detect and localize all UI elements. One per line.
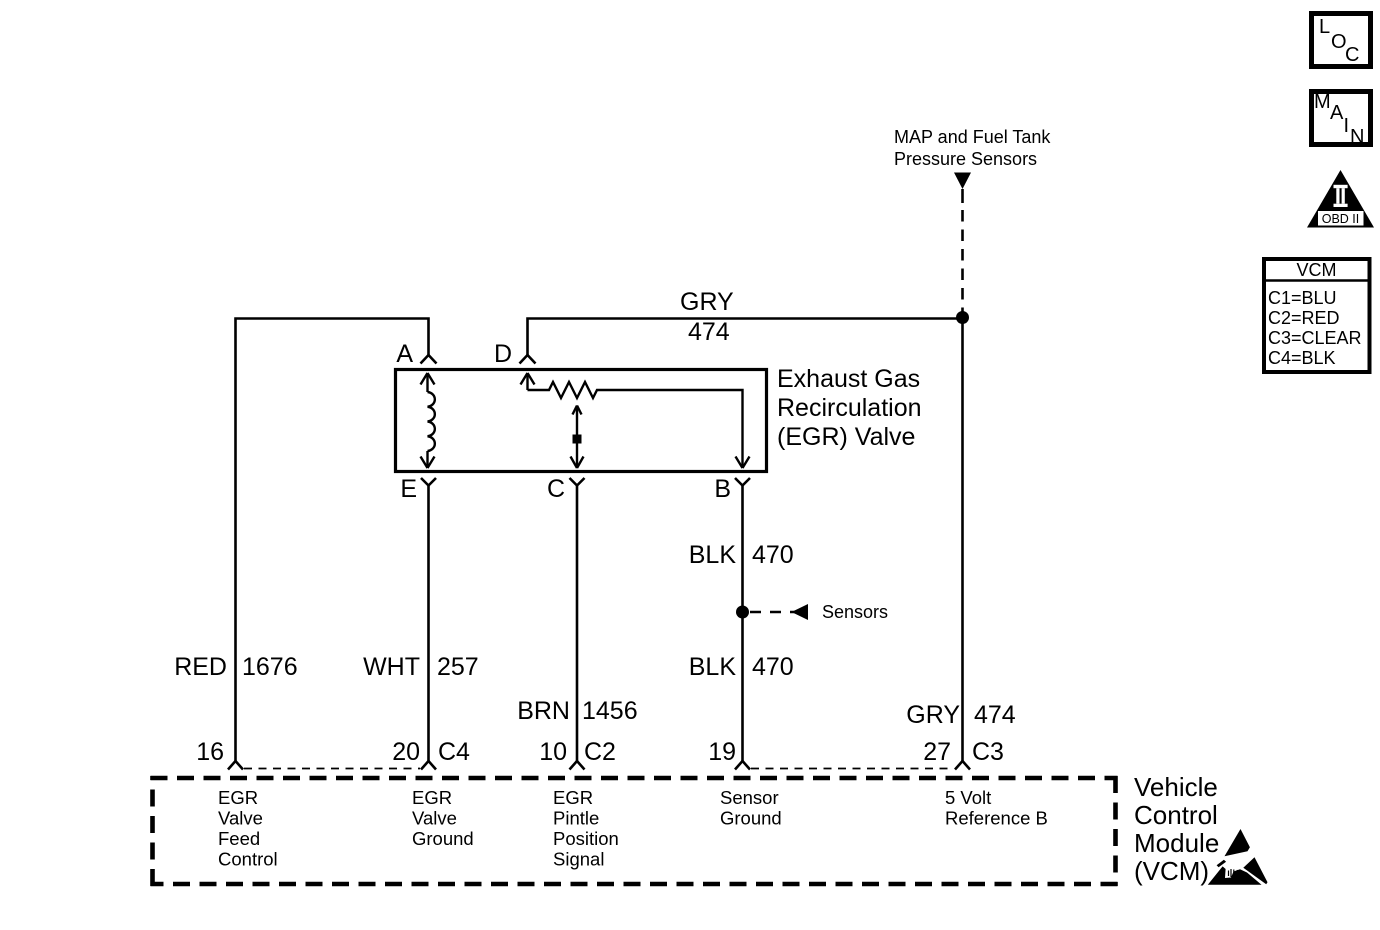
svg-text:Exhaust Gas: Exhaust Gas bbox=[777, 365, 920, 393]
svg-text:C: C bbox=[1345, 44, 1359, 66]
wire: RED 1676 from VCM pin 16 up and over to EGR pin A bbox=[236, 319, 429, 763]
connector pin 10 (male terminal) bbox=[570, 761, 585, 770]
wire: thin dashed connector bar pin16-pin20 bbox=[244, 768, 420, 770]
svg-text:257: 257 bbox=[437, 653, 479, 681]
svg-text:Feed: Feed bbox=[218, 828, 260, 849]
svg-text:(EGR) Valve: (EGR) Valve bbox=[777, 423, 915, 451]
OBD II triangle symbol bbox=[1307, 170, 1374, 228]
potentiometer wiper arm (pin C) bbox=[571, 406, 584, 469]
ESD hand finger strokes bbox=[1229, 869, 1238, 877]
connector pin E (male terminal) bbox=[421, 478, 436, 486]
svg-text:Sensors: Sensors bbox=[822, 602, 888, 622]
svg-text:BLK: BLK bbox=[689, 541, 737, 569]
MAIN page symbol box bbox=[1312, 92, 1371, 145]
arrow: off-page arrowhead to sensors bbox=[954, 173, 971, 190]
svg-text:20: 20 bbox=[392, 738, 420, 766]
svg-text:BLK: BLK bbox=[689, 653, 737, 681]
svg-text:C3=CLEAR: C3=CLEAR bbox=[1268, 328, 1362, 348]
svg-text:GRY: GRY bbox=[680, 288, 734, 316]
wire: GRY 474 from junction down to VCM pin 27 bbox=[961, 318, 964, 763]
svg-text:Recirculation: Recirculation bbox=[777, 394, 922, 422]
LOC page symbol box bbox=[1312, 14, 1371, 67]
potentiometer R1 inside EGR valve (pin D to pin B) bbox=[521, 373, 750, 468]
OBD II roman numeral II (white) bbox=[1334, 185, 1348, 207]
pintle contact square on wiper bbox=[573, 435, 582, 444]
wire: dashed off-page to MAP and Fuel Tank Pressure Sensors bbox=[961, 189, 964, 316]
wire: BRN 1456 from EGR pin C down to VCM pin 10 bbox=[576, 486, 579, 763]
svg-text:C3: C3 bbox=[972, 738, 1004, 766]
wire: WHT 257 from EGR pin E down to VCM pin 20 bbox=[427, 486, 430, 763]
svg-text:N: N bbox=[1350, 126, 1364, 148]
svg-text:EGR: EGR bbox=[412, 787, 452, 808]
svg-text:Control: Control bbox=[218, 849, 278, 870]
svg-text:C2=RED: C2=RED bbox=[1268, 308, 1340, 328]
svg-text:BRN: BRN bbox=[517, 697, 570, 725]
svg-text:Signal: Signal bbox=[553, 849, 604, 870]
VCM connector color table bbox=[1264, 259, 1370, 372]
svg-text:27: 27 bbox=[923, 738, 951, 766]
ESD symbol lower triangle with hand (after VCM) bbox=[1208, 857, 1268, 885]
svg-text:C1=BLU: C1=BLU bbox=[1268, 288, 1337, 308]
wire: thin dashed connector bar pin19-pin27 bbox=[751, 768, 954, 770]
svg-text:A: A bbox=[396, 340, 413, 368]
svg-text:Pintle: Pintle bbox=[553, 808, 599, 829]
svg-text:EGR: EGR bbox=[553, 787, 593, 808]
ESD symbol upper cone (after Module) bbox=[1225, 829, 1250, 856]
svg-text:L: L bbox=[1319, 16, 1330, 38]
svg-text:E: E bbox=[400, 475, 417, 503]
svg-text:Sensor: Sensor bbox=[720, 787, 779, 808]
svg-text:Pressure Sensors: Pressure Sensors bbox=[894, 149, 1037, 169]
svg-text:10: 10 bbox=[539, 738, 567, 766]
svg-text:WHT: WHT bbox=[363, 653, 420, 681]
svg-text:Ground: Ground bbox=[412, 828, 474, 849]
connector pin 19 (male terminal) bbox=[735, 761, 750, 770]
OBD II label plate bbox=[1318, 211, 1364, 226]
svg-text:GRY: GRY bbox=[906, 701, 960, 729]
svg-text:MAP and Fuel Tank: MAP and Fuel Tank bbox=[894, 127, 1051, 147]
node: splice junction to other sensors on BLK 470 bbox=[736, 606, 749, 619]
svg-text:Valve: Valve bbox=[218, 808, 263, 829]
svg-text:474: 474 bbox=[688, 318, 730, 346]
connector pin D (female terminal) bbox=[520, 355, 536, 364]
connector pin C (male terminal) bbox=[570, 478, 585, 486]
svg-text:16: 16 bbox=[196, 738, 224, 766]
svg-text:1676: 1676 bbox=[242, 653, 298, 681]
node: splice junction to MAP/Fuel Tank sensors bbox=[956, 311, 969, 324]
connector pin 16 (male terminal) bbox=[228, 761, 243, 770]
svg-text:A: A bbox=[1330, 102, 1344, 124]
svg-text:19: 19 bbox=[708, 738, 736, 766]
svg-text:I: I bbox=[1344, 115, 1350, 137]
EGR valve box U1 bbox=[396, 370, 767, 472]
svg-text:Module: Module bbox=[1134, 828, 1219, 858]
solenoid coil L1 inside EGR valve (pin A to pin E) bbox=[421, 373, 435, 468]
svg-text:EGR: EGR bbox=[218, 787, 258, 808]
svg-text:5 Volt: 5 Volt bbox=[945, 787, 991, 808]
connector pin B (male terminal) bbox=[735, 478, 750, 486]
svg-text:B: B bbox=[714, 475, 731, 503]
svg-text:C4: C4 bbox=[438, 738, 470, 766]
svg-text:Ground: Ground bbox=[720, 808, 782, 829]
svg-text:1456: 1456 bbox=[582, 697, 638, 725]
connector pin 27 (male terminal) bbox=[955, 761, 970, 770]
connector pin 20 (male terminal) bbox=[421, 761, 436, 770]
wire: GRY 474 from EGR pin D up and right to junction bbox=[528, 319, 963, 357]
arrow: off-page arrowhead from Sensors bbox=[792, 604, 809, 620]
svg-text:Control: Control bbox=[1134, 800, 1218, 830]
connector pin A (female terminal) bbox=[421, 355, 437, 364]
svg-text:C: C bbox=[547, 475, 565, 503]
svg-text:Reference B: Reference B bbox=[945, 808, 1048, 829]
svg-text:474: 474 bbox=[974, 701, 1016, 729]
svg-text:C2: C2 bbox=[584, 738, 616, 766]
VCM table header separator bbox=[1264, 279, 1370, 282]
svg-text:470: 470 bbox=[752, 653, 794, 681]
svg-text:M: M bbox=[1314, 91, 1331, 113]
svg-text:C4=BLK: C4=BLK bbox=[1268, 348, 1336, 368]
svg-text:Valve: Valve bbox=[412, 808, 457, 829]
svg-text:D: D bbox=[494, 340, 512, 368]
svg-text:(VCM): (VCM) bbox=[1134, 856, 1209, 886]
svg-text:Position: Position bbox=[553, 828, 619, 849]
svg-text:OBD II: OBD II bbox=[1322, 212, 1360, 226]
Vehicle Control Module (VCM) dashed box bbox=[151, 776, 1118, 886]
svg-text:RED: RED bbox=[174, 653, 227, 681]
wire: dashed stub to Sensors bbox=[750, 611, 796, 614]
svg-text:Vehicle: Vehicle bbox=[1134, 772, 1218, 802]
svg-text:470: 470 bbox=[752, 541, 794, 569]
wire: BLK 470 from EGR pin B down to VCM pin 19 bbox=[741, 486, 744, 763]
svg-text:VCM: VCM bbox=[1297, 260, 1337, 280]
